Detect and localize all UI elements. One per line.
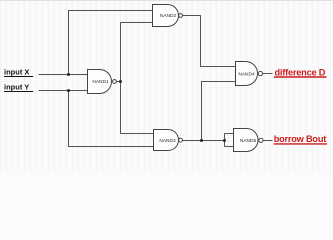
svg-text:difference D: difference D bbox=[275, 67, 326, 77]
svg-text:NAND2: NAND2 bbox=[160, 13, 177, 19]
svg-text:input Y: input Y bbox=[4, 82, 29, 91]
svg-text:NAND4: NAND4 bbox=[238, 71, 255, 77]
svg-text:NAND5: NAND5 bbox=[240, 138, 257, 144]
svg-text:borrow Bout: borrow Bout bbox=[274, 134, 327, 144]
svg-text:input X: input X bbox=[4, 67, 29, 76]
svg-text:NAND3: NAND3 bbox=[159, 138, 176, 144]
svg-text:NAND1: NAND1 bbox=[92, 79, 109, 85]
